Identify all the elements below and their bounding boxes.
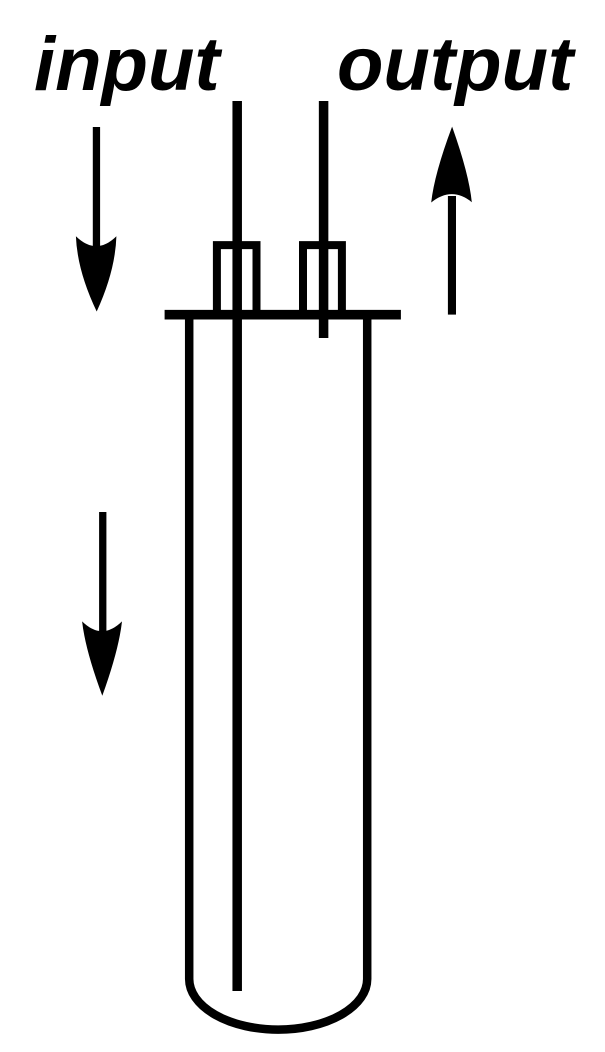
svg-text:input: input: [34, 22, 222, 107]
svg-text:output: output: [337, 22, 576, 107]
outlet tube (short, ends below flange): [319, 101, 329, 338]
arrow down (middle left): [82, 512, 122, 696]
right stopper fitting: [303, 245, 342, 311]
arrow output up (right): [431, 127, 472, 315]
left stopper fitting: [217, 245, 257, 311]
vessel body (round-bottom tube): [189, 319, 367, 1029]
inlet tube (long, reaches near bottom): [232, 101, 242, 991]
arrow input down (top left): [76, 127, 117, 312]
flange / lid line: [165, 310, 401, 320]
